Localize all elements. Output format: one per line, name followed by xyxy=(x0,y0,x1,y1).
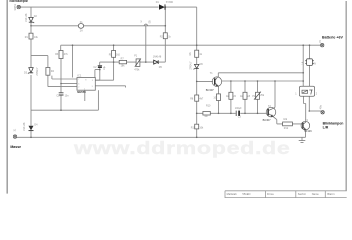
capacitor C3 xyxy=(236,111,240,116)
wire C2 stubs xyxy=(99,62,101,80)
wire bus left elbow to R3 xyxy=(60,45,62,110)
wire relay right drop lamp xyxy=(309,45,311,86)
svg-text:SF126: SF126 xyxy=(304,129,312,133)
svg-text:1k5: 1k5 xyxy=(116,54,121,57)
page border left xyxy=(7,0,8,194)
wire top right elbow down (R6 chain top) xyxy=(196,7,198,50)
terminal Blinklampen xyxy=(321,111,324,114)
pin numbers xyxy=(78,79,94,90)
fuse F1 xyxy=(78,24,83,29)
wire relay left drop xyxy=(302,45,304,86)
svg-text:4k7: 4k7 xyxy=(204,115,209,118)
wire column B xyxy=(244,81,246,113)
wire x217.5 bus to T1 xyxy=(217,73,219,77)
wire bus y45.2 xyxy=(61,44,321,46)
svg-text:470k: 470k xyxy=(134,68,140,71)
diode D5 xyxy=(154,60,159,64)
lamp xyxy=(305,59,314,66)
wire IC bottom pin1 xyxy=(84,90,86,101)
wire lamp terminal xyxy=(309,110,321,112)
resistor R10 xyxy=(203,112,210,116)
wire y81 collector row xyxy=(222,80,304,82)
resistor R2 xyxy=(46,68,50,76)
terminal Batterie xyxy=(321,44,324,47)
resistor RB xyxy=(243,92,247,99)
resistor R1 left xyxy=(29,33,33,39)
svg-text:R10: R10 xyxy=(206,104,211,107)
wire T1 base xyxy=(197,80,213,82)
svg-text:L/R: L/R xyxy=(323,125,329,129)
resistor R7 xyxy=(119,60,126,63)
resistor R6 xyxy=(195,50,199,57)
wire y113.3 R10 row xyxy=(197,112,267,114)
svg-text:Maßstab: Maßstab xyxy=(227,192,238,196)
wire x72.5 bus to IC top xyxy=(72,45,74,77)
resistor R8 xyxy=(195,95,199,101)
svg-text:NE555: NE555 xyxy=(77,90,86,94)
svg-text:Blatt 1: Blatt 1 xyxy=(327,192,335,196)
wire column C xyxy=(257,81,259,113)
wire x145.8 riser xyxy=(145,25,147,62)
svg-text:R11: R11 xyxy=(191,126,196,129)
svg-text:551EN: 551EN xyxy=(242,192,250,196)
terminal top-left xyxy=(17,5,20,8)
wire y62.1 horizontal xyxy=(100,61,166,63)
resistor R11 xyxy=(195,124,199,129)
resistor R12 xyxy=(283,122,293,126)
transistor T3 xyxy=(301,121,310,130)
transistor T1 xyxy=(212,77,222,87)
svg-text:Sachnr: Sachnr xyxy=(298,192,306,196)
svg-text:100µF: 100µF xyxy=(235,107,242,110)
wire IC top pin to C2 column xyxy=(95,70,100,78)
wire gnd y110.2 xyxy=(31,109,98,111)
wire IC bottom right riser xyxy=(97,90,99,110)
svg-text:1N4148: 1N4148 xyxy=(23,122,26,131)
svg-text:SY360: SY360 xyxy=(166,1,174,4)
wire T2 emitter to R12 xyxy=(272,116,301,124)
svg-text:30/51: 30/51 xyxy=(13,3,17,10)
relay K1 xyxy=(299,86,314,96)
wire riser to IC pin y79 xyxy=(52,76,77,79)
svg-text:6V: 6V xyxy=(313,63,316,66)
resistor R9 xyxy=(217,94,221,101)
wire IC right pin y85.8 xyxy=(95,86,125,88)
wire T2 collector xyxy=(274,81,276,107)
wire left column x31 xyxy=(30,7,32,137)
resistor RA xyxy=(229,92,233,99)
potentiometer P1 xyxy=(135,59,141,67)
zener D6 xyxy=(194,64,199,69)
wire x113.6 R4 chain xyxy=(95,45,113,80)
wire T3 emitter xyxy=(305,130,307,138)
svg-text:www.ddrmoped.de: www.ddrmoped.de xyxy=(73,138,291,158)
wire top rail xyxy=(20,6,197,8)
wire column A xyxy=(230,81,232,113)
wire C1 node to IC pin y83.5 xyxy=(61,83,77,85)
capacitor C2 xyxy=(98,66,102,68)
title block xyxy=(225,191,347,198)
resistor R1b x165 xyxy=(163,33,167,39)
capacitor C1 xyxy=(59,93,64,95)
svg-text:Name: Name xyxy=(312,192,319,196)
svg-text:10µ: 10µ xyxy=(103,65,106,70)
svg-text:R12: R12 xyxy=(284,127,289,130)
diode D3 xyxy=(29,126,34,131)
wire relay bottom pins xyxy=(304,96,310,121)
svg-text:Firma: Firma xyxy=(267,192,274,196)
IC U1 NE555 xyxy=(77,78,95,91)
svg-text:IC1: IC1 xyxy=(77,74,82,78)
svg-text:BC307: BC307 xyxy=(206,88,214,92)
diode D1 xyxy=(159,4,165,9)
terminal Masse xyxy=(13,135,16,138)
svg-text:1N4148: 1N4148 xyxy=(25,13,28,22)
svg-text:ZPD2,7: ZPD2,7 xyxy=(36,67,39,76)
wire y72.8 xyxy=(218,72,303,74)
watermark www.ddrmoped.de xyxy=(73,138,291,158)
svg-text:Kabelbaumplan: Kabelbaumplan xyxy=(10,0,29,3)
svg-text:10n: 10n xyxy=(65,94,70,97)
wire T1 bottom to R9 xyxy=(218,86,220,113)
wire bottom rail xyxy=(16,136,305,138)
wire y25.8 horizontal xyxy=(31,25,165,27)
svg-text:Batterie +6V: Batterie +6V xyxy=(322,36,343,40)
wire R2 bottom to IC pin xyxy=(48,75,77,86)
resistor R4 xyxy=(112,51,116,58)
arc hop xyxy=(144,24,148,26)
wire R2 top elbow from x31 xyxy=(31,56,48,68)
wire R6 zener chain x196.7 xyxy=(196,57,198,137)
svg-text:1N4148: 1N4148 xyxy=(153,56,162,59)
wire IC right pin y80.2 xyxy=(95,79,100,81)
svg-text:49a: 49a xyxy=(319,105,322,110)
wire x165.3 column xyxy=(164,7,166,62)
transistor T2 xyxy=(266,107,276,117)
resistor R3 xyxy=(59,51,63,59)
page border right xyxy=(346,1,347,191)
ground symbol xyxy=(299,137,306,142)
svg-text:BC307: BC307 xyxy=(263,118,271,122)
zener D2 top xyxy=(29,17,34,23)
svg-text:2A: 2A xyxy=(80,29,83,32)
zener D2b xyxy=(28,68,33,74)
svg-text:Masse: Masse xyxy=(10,145,21,149)
potentiometer P2 xyxy=(254,92,261,100)
svg-text:4k7: 4k7 xyxy=(199,98,204,101)
svg-text:ZPD4,7: ZPD4,7 xyxy=(189,61,192,70)
